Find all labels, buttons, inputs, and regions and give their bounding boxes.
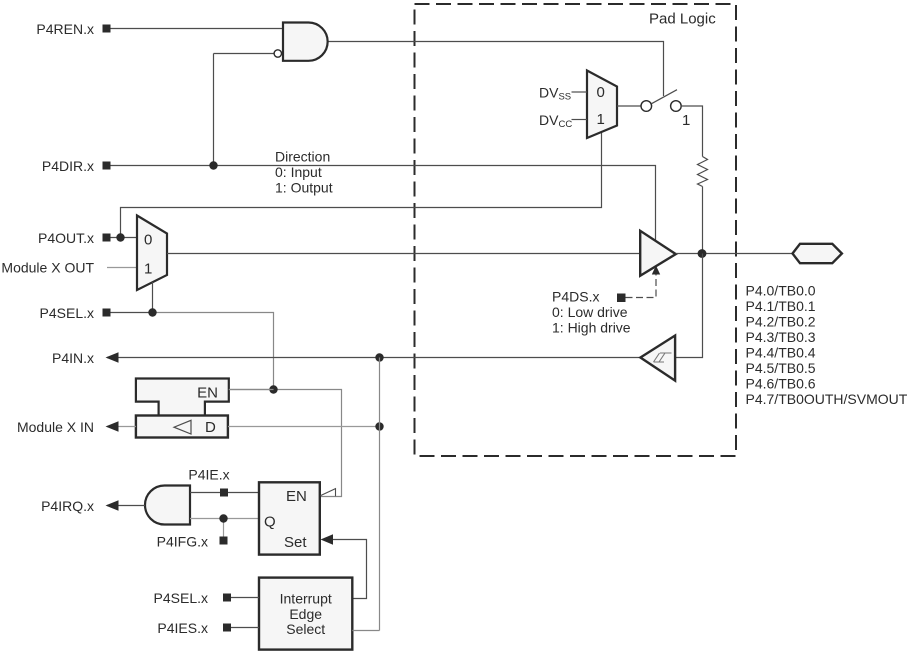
svg-text:P4.7/TB0OUTH/SVMOUT: P4.7/TB0OUTH/SVMOUT (746, 391, 907, 407)
svg-text:Pad Logic: Pad Logic (649, 11, 716, 28)
svg-text:P4.4/TB0.4: P4.4/TB0.4 (746, 344, 816, 360)
switch S1 contact right (671, 101, 682, 112)
terminal square P4DS.x (617, 294, 626, 303)
svg-text:P4.0/TB0.0: P4.0/TB0.0 (746, 282, 816, 298)
arrowhead Set (321, 534, 334, 544)
wire P4SEL (110, 312, 153, 314)
Schmitt hysteresis symbol (654, 353, 672, 362)
arrowhead P4IRQ (106, 500, 119, 511)
wire P4IN from Schmitt output (107, 357, 640, 359)
svg-text:0: Input: 0: Input (275, 164, 322, 180)
pad hexagon P4 pin (793, 244, 842, 263)
svg-text:Interrupt: Interrupt (280, 590, 332, 606)
svg-text:Module X IN: Module X IN (17, 419, 94, 435)
Schmitt trigger U5 input buffer (640, 336, 675, 381)
svg-text:1: 1 (597, 111, 605, 128)
wire edge select input tap (352, 630, 379, 632)
wire P4REN to AND (110, 28, 283, 30)
wire resistor to pad (702, 187, 704, 254)
buffer triangle in D box (174, 420, 191, 434)
resistor R1 pull (698, 157, 708, 187)
wire P4IFG stub (223, 519, 225, 538)
svg-text:P4.6/TB0.6: P4.6/TB0.6 (746, 375, 816, 391)
terminal square P4SEL.x (103, 309, 111, 317)
svg-text:P4IN.x: P4IN.x (52, 350, 94, 366)
input latch EN box (136, 379, 229, 416)
Pad Logic dashed box (415, 4, 737, 456)
wire P4IRQ output (107, 505, 145, 507)
junction dot Q/P4IFG (219, 514, 227, 522)
wire P4IE to FF EN (190, 492, 259, 494)
svg-text:Q: Q (264, 514, 276, 531)
svg-text:P4.5/TB0.5: P4.5/TB0.5 (746, 360, 816, 376)
svg-text:P4.3/TB0.3: P4.3/TB0.3 (746, 329, 816, 345)
wire P4SEL to edge select (231, 597, 259, 599)
P4DS dashed control wire (626, 269, 657, 298)
svg-text:P4OUT.x: P4OUT.x (38, 230, 94, 246)
wire driver output to pad (676, 253, 793, 255)
svg-text:P4.1/TB0.1: P4.1/TB0.1 (746, 298, 816, 314)
wire D input from P4IN tap (228, 426, 380, 428)
wire P4IES to edge select (231, 627, 259, 629)
svg-text:Direction: Direction (275, 149, 330, 165)
svg-text:Set: Set (284, 534, 307, 551)
svg-text:P4IFG.x: P4IFG.x (157, 533, 208, 549)
wire interrupt tap vertical (379, 358, 381, 631)
svg-text:D: D (205, 419, 216, 436)
terminal square P4IES.x (223, 624, 231, 632)
junction dot P4DIR/AND (209, 161, 217, 169)
wire DVss stub (572, 91, 588, 93)
junction dot P4IN tap (375, 353, 383, 361)
svg-text:P4REN.x: P4REN.x (36, 21, 94, 37)
junction dot P4OUT (116, 233, 124, 241)
arrowhead Module X IN (106, 421, 119, 432)
driver buffer U4 (640, 231, 676, 276)
wire mux output to switch (617, 105, 642, 107)
arrowhead P4DS drive strength (652, 266, 660, 275)
interrupt edge select block U8 (259, 578, 352, 650)
wire inverted input from P4DIR junction (214, 54, 275, 166)
wire pad to Schmitt input (675, 254, 702, 358)
wire mux select from P4SEL (152, 282, 154, 313)
switch S1 lever (652, 90, 678, 104)
svg-text:P4IRQ.x: P4IRQ.x (41, 498, 94, 514)
wire AND output to switch control (328, 42, 664, 97)
svg-text:EN: EN (286, 488, 307, 505)
wire DVcc stub (572, 119, 588, 121)
terminal square P4IE.x (220, 489, 228, 497)
wire Q to AND input (190, 518, 259, 520)
wire P4OUT to mux input 0 (110, 237, 137, 239)
wire Set from edge select (331, 540, 367, 599)
svg-text:P4IE.x: P4IE.x (188, 467, 229, 483)
svg-text:Module X OUT: Module X OUT (1, 259, 94, 275)
wire Module X OUT to mux input 1 (107, 267, 137, 269)
svg-text:P4SEL.x: P4SEL.x (154, 590, 208, 606)
mux U3 pull-up/down select (587, 71, 617, 139)
terminal square P4IFG.x (220, 537, 228, 545)
svg-text:1: Output: 1: Output (275, 180, 333, 196)
svg-text:P4IES.x: P4IES.x (157, 620, 208, 636)
svg-text:EN: EN (197, 385, 218, 402)
and-gate U6 interrupt request (145, 486, 190, 525)
svg-text:P4SEL.x: P4SEL.x (40, 305, 94, 321)
wire P4SEL net to latch EN and FF clock (153, 313, 342, 497)
wire Module X IN from D box (107, 426, 136, 428)
arrowhead P4IN (106, 352, 119, 363)
wire switch to resistor (681, 106, 703, 157)
terminal square P4REN.x (103, 25, 111, 33)
svg-text:P4.2/TB0.2: P4.2/TB0.2 (746, 313, 816, 329)
wire mux output to driver (167, 253, 640, 255)
wire P4DIR to driver enable (110, 166, 656, 241)
wire P4OUT up to pull mux select (121, 133, 602, 238)
svg-text:0: Low drive: 0: Low drive (552, 304, 628, 320)
svg-text:1: High drive: 1: High drive (552, 320, 631, 336)
svg-text:0: 0 (597, 84, 605, 101)
terminal square P4OUT.x (103, 234, 111, 242)
junction dot P4SEL/EN (269, 385, 277, 393)
junction dot Module X IN tap (375, 422, 383, 430)
svg-text:P4DS.x: P4DS.x (552, 289, 599, 305)
and-gate U1 pull-up/down enable (283, 23, 328, 61)
mux U2 output select (137, 216, 167, 291)
svg-text:Edge: Edge (289, 606, 322, 622)
terminal square P4DIR.x (103, 162, 111, 170)
svg-text:Select: Select (286, 621, 325, 637)
switch S1 contact left (641, 101, 652, 112)
FF clock edge marker (321, 489, 336, 497)
junction dot P4SEL/mux select (148, 308, 156, 316)
junction dot pad node (698, 249, 707, 258)
svg-text:1: 1 (144, 261, 152, 278)
svg-text:0: 0 (144, 232, 152, 249)
wire latch EN to P4SEL net (229, 389, 274, 391)
terminal square P4SEL.x lower (223, 594, 231, 602)
svg-text:P4DIR.x: P4DIR.x (42, 158, 94, 174)
inverter bubble on AND input (274, 50, 281, 57)
input latch D box (136, 416, 228, 438)
interrupt flag flip-flop U7 (259, 482, 320, 554)
svg-text:1: 1 (682, 112, 690, 129)
